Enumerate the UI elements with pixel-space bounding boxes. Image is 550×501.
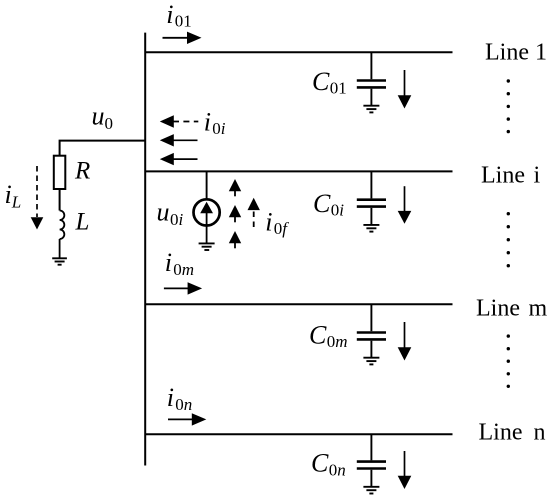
arrow i0m xyxy=(164,282,202,294)
arrow: load current at Line n xyxy=(398,451,412,489)
wire: Line m conductor xyxy=(145,303,453,305)
ground for C01 xyxy=(363,106,379,113)
svg-text:u: u xyxy=(157,198,170,227)
inductor L xyxy=(60,211,65,240)
ground (RL branch) xyxy=(52,258,67,264)
wire: Line 1 conductor xyxy=(145,51,453,53)
wire: R to L xyxy=(59,190,61,211)
current source u0i xyxy=(194,199,220,225)
svg-text:u: u xyxy=(92,102,105,131)
wire: L to ground xyxy=(59,239,61,258)
ground (current source) xyxy=(199,243,215,250)
label i0m xyxy=(165,248,194,279)
svg-text:0f: 0f xyxy=(274,219,290,238)
label i01 xyxy=(166,0,192,31)
svg-text:i: i xyxy=(167,383,174,412)
label C0i xyxy=(313,189,344,220)
svg-text:i: i xyxy=(204,108,211,137)
dots below Line 1 xyxy=(507,79,510,133)
capacitor C0n xyxy=(357,435,386,486)
arrow i0i solid bottom xyxy=(160,153,198,165)
svg-text:i: i xyxy=(5,180,12,209)
svg-text:0i: 0i xyxy=(170,210,184,229)
dots between Line i and Line m xyxy=(507,212,510,267)
svg-text:i: i xyxy=(165,248,172,277)
label iL xyxy=(5,180,22,212)
ground for C0n xyxy=(363,487,379,494)
svg-text:C: C xyxy=(311,449,329,478)
svg-text:L: L xyxy=(75,209,90,236)
label i0n xyxy=(167,383,193,414)
label i0i xyxy=(204,108,226,139)
resistor R xyxy=(54,156,66,189)
svg-text:C: C xyxy=(312,67,330,96)
wire: Line n conductor xyxy=(145,433,453,435)
svg-text:i: i xyxy=(265,208,272,237)
wire: current source to ground xyxy=(206,226,208,243)
svg-text:Line n: Line n xyxy=(479,420,546,446)
svg-text:0i: 0i xyxy=(331,201,345,220)
wire: node u0 to bus and down to R xyxy=(60,141,145,155)
arrow i0f upper xyxy=(229,179,241,196)
arrow i01 xyxy=(163,32,202,44)
label u0i xyxy=(157,198,184,230)
label u0 xyxy=(92,102,114,133)
svg-text:01: 01 xyxy=(175,12,192,31)
svg-text:C: C xyxy=(313,189,331,218)
arrow i0i solid middle xyxy=(160,134,198,146)
svg-text:0m: 0m xyxy=(173,260,194,279)
svg-text:Line 1: Line 1 xyxy=(485,40,547,66)
svg-text:0: 0 xyxy=(105,114,114,133)
dots between Line m and Line n xyxy=(507,334,510,388)
arrow: load current at Line m xyxy=(398,322,412,361)
svg-text:0n: 0n xyxy=(329,461,346,480)
label C0n xyxy=(311,449,346,480)
arrow i0f middle xyxy=(229,205,241,222)
wire: Line i conductor xyxy=(145,170,453,172)
ground for C0m xyxy=(363,358,379,365)
arrow i0i dashed (top) xyxy=(160,115,199,127)
svg-text:0n: 0n xyxy=(175,395,192,414)
arrow i0f dashed xyxy=(248,198,260,227)
svg-text:C: C xyxy=(309,321,327,350)
capacitor C0m xyxy=(357,305,386,357)
arrow iL (dashed) xyxy=(31,166,44,230)
svg-text:R: R xyxy=(74,158,90,185)
svg-text:L: L xyxy=(11,193,21,212)
svg-text:i: i xyxy=(166,0,173,29)
arrow i0n xyxy=(168,413,206,425)
svg-text:Line m: Line m xyxy=(476,296,547,322)
svg-text:01: 01 xyxy=(330,79,347,98)
label C0m xyxy=(309,321,348,352)
arrow i0f lower xyxy=(229,231,241,248)
wire: Line i to current source xyxy=(206,172,208,200)
label C01 xyxy=(312,67,347,98)
capacitor C0i xyxy=(357,172,386,224)
arrow: load current at Line i xyxy=(398,186,412,224)
svg-text:0i: 0i xyxy=(212,119,226,138)
ground for C0i xyxy=(363,225,379,232)
capacitor C01 xyxy=(357,53,386,105)
svg-text:0m: 0m xyxy=(327,332,348,351)
wire: main vertical bus xyxy=(144,33,146,466)
svg-text:Line i: Line i xyxy=(481,163,540,189)
label i0f xyxy=(265,208,289,239)
arrow: load current at Line 1 xyxy=(398,70,412,109)
